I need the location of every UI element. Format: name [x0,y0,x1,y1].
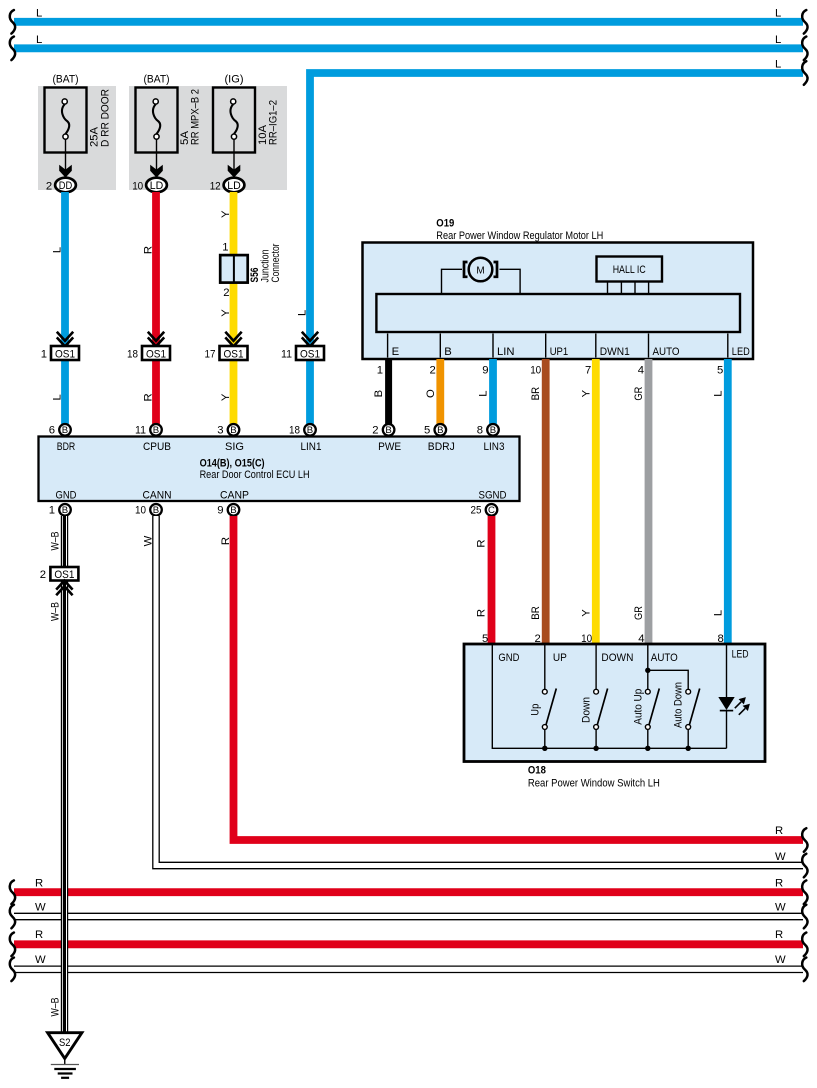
svg-text:4: 4 [638,633,644,645]
svg-text:W: W [143,535,155,546]
svg-text:O18: O18 [528,765,546,777]
wire L bus 1 (top) [10,8,808,34]
svg-text:CPUB: CPUB [143,441,171,453]
svg-text:E: E [392,346,400,358]
ECU pin 11 CPUB terminal [135,424,162,437]
svg-text:L: L [712,390,724,396]
svg-text:10: 10 [132,181,143,193]
O19 pin 1 E [377,334,400,377]
svg-text:B: B [230,505,236,516]
svg-text:18: 18 [289,425,300,437]
svg-text:O14(B), O15(C): O14(B), O15(C) [200,458,265,470]
svg-text:GR: GR [633,387,645,401]
svg-text:AUTO: AUTO [651,652,678,664]
svg-text:7: 7 [585,365,591,377]
svg-text:11: 11 [135,425,146,437]
svg-text:BR: BR [530,606,542,620]
wire L (LIN3) [478,359,494,424]
svg-text:L: L [775,8,781,20]
svg-text:DOWN: DOWN [601,652,633,664]
svg-text:O19: O19 [436,218,454,230]
svg-text:1: 1 [41,349,47,361]
AUTO branch node [645,645,688,689]
svg-text:R: R [143,393,155,401]
svg-text:CANP: CANP [220,490,249,502]
wire R (SGND to switch GND) [476,516,492,644]
wire R bus 2 [10,929,808,956]
svg-text:DWN1: DWN1 [600,346,630,358]
power source block background 2 [129,86,287,190]
svg-text:UP: UP [553,652,567,664]
switch Auto Down (no vertical from node) [673,682,700,751]
fuse 10A RR-IG1-2 [210,74,280,193]
svg-text:R: R [35,929,43,941]
ECU pin 10 CANN terminal [135,504,162,517]
O19 pin 9 LIN [482,334,514,377]
svg-text:8: 8 [718,633,724,645]
ECU pin 1 GND terminal [49,504,71,517]
svg-text:LIN: LIN [497,346,515,358]
wire L bus 3 to LIN1 [297,59,808,425]
svg-text:8: 8 [477,425,483,437]
ECU pin 18 LIN1 terminal [289,424,316,437]
ECU pin 25 SGND terminal [471,504,498,517]
svg-text:HALL IC: HALL IC [613,264,646,276]
svg-text:R: R [35,878,43,890]
wire O (BDRJ) [425,359,441,424]
connector 11 OS1 [281,332,324,361]
svg-text:R: R [220,537,232,545]
svg-text:Y: Y [580,609,592,617]
motor M [442,258,521,294]
svg-text:M: M [476,265,484,276]
svg-text:W: W [35,954,46,966]
connector 2 OS1 [40,567,79,595]
svg-text:W: W [775,851,786,863]
svg-text:BDR: BDR [57,441,76,453]
svg-text:CANN: CANN [143,490,172,502]
svg-text:OS1: OS1 [146,348,166,360]
svg-text:B: B [490,425,496,436]
svg-text:B: B [307,425,313,436]
svg-text:R: R [476,609,488,617]
svg-text:OS1: OS1 [55,348,75,360]
wire R (CANP bus) [220,516,808,852]
wire BR (UP1 to switch) [530,359,546,644]
svg-text:Down: Down [581,697,593,723]
switch Up [529,645,556,751]
svg-text:B: B [437,425,443,436]
svg-text:Connector: Connector [270,243,282,282]
wire W (CANN bus) [143,516,808,877]
ECU pin 8 LIN3 terminal [477,424,499,437]
svg-text:L: L [36,8,42,20]
ECU pin 6 BDR terminal [49,424,71,437]
svg-text:5: 5 [482,633,488,645]
svg-text:Rear Power Window Regulator Mo: Rear Power Window Regulator Motor LH [436,230,603,242]
svg-text:OS1: OS1 [300,348,320,360]
connector 18 OS1 [127,332,170,361]
svg-text:9: 9 [482,365,488,377]
O19 pin 7 DWN1 [585,334,630,377]
svg-text:10: 10 [135,505,146,517]
svg-text:O: O [425,389,437,398]
svg-text:D RR DOOR: D RR DOOR [100,89,112,147]
svg-text:(BAT): (BAT) [144,74,170,86]
svg-text:B: B [153,425,159,436]
wire B (PWE) [373,359,389,424]
svg-text:SIG: SIG [225,441,244,453]
svg-text:1: 1 [377,365,383,377]
fuse 5A RR MPX-B 2 [132,74,201,193]
svg-text:LD: LD [227,180,241,192]
svg-text:LIN3: LIN3 [484,441,505,453]
svg-text:R: R [476,539,488,547]
svg-text:L: L [297,310,309,316]
wire W-B (GND to S2 ground) [49,516,68,1033]
svg-text:2: 2 [223,287,229,299]
svg-text:B: B [62,425,68,436]
svg-text:LED: LED [732,649,749,661]
svg-text:Auto Up: Auto Up [632,689,644,725]
svg-text:W–B: W–B [49,602,61,621]
svg-text:GND: GND [56,490,77,502]
O19 pin 2 B [430,334,452,377]
svg-text:W–B: W–B [49,998,61,1017]
svg-text:3: 3 [217,425,223,437]
svg-text:L: L [775,34,781,46]
switch pin numbers [482,633,724,645]
svg-text:Rear Power Window Switch LH: Rear Power Window Switch LH [528,778,660,790]
svg-text:W: W [775,954,786,966]
svg-text:2: 2 [430,365,436,377]
svg-text:25: 25 [471,505,482,517]
svg-text:L: L [478,390,490,396]
O19 pin 5 LED [717,334,750,377]
svg-text:Y: Y [220,309,232,317]
svg-text:1: 1 [222,242,228,254]
svg-text:Up: Up [529,704,541,716]
svg-text:(IG): (IG) [225,74,244,86]
svg-text:Rear Door Control ECU LH: Rear Door Control ECU LH [200,469,310,481]
svg-text:Y: Y [220,210,232,218]
ECU pin 9 CANP terminal [217,504,239,517]
svg-text:4: 4 [638,365,644,377]
svg-text:2: 2 [535,633,541,645]
svg-text:B: B [444,346,452,358]
svg-text:W: W [775,902,786,914]
svg-text:RR–IG1–2: RR–IG1–2 [268,100,280,145]
svg-text:BDRJ: BDRJ [428,441,455,453]
wire GR (AUTO to switch) [633,359,649,644]
O19 pin 4 AUTO [638,334,680,377]
junction connector S56 [220,242,282,300]
wire L bus 2 [10,34,808,60]
O18 Rear Power Window Switch LH box [464,644,765,790]
svg-text:L: L [36,34,42,46]
svg-text:W: W [35,902,46,914]
HALL IC [597,257,663,295]
svg-text:OS1: OS1 [224,348,244,360]
svg-text:10: 10 [530,365,541,377]
svg-text:5: 5 [424,425,430,437]
svg-text:B: B [373,390,385,398]
svg-text:R: R [775,929,783,941]
svg-text:C: C [488,505,495,516]
ground S2 [48,1033,82,1078]
svg-text:(BAT): (BAT) [53,74,79,86]
svg-text:RR MPX–B 2: RR MPX–B 2 [190,89,202,145]
svg-text:Y: Y [220,393,232,401]
wire Y (DWN1 to switch) [580,359,596,644]
ECU pin 3 SIG terminal [217,424,239,437]
wire W bus 1 [10,902,808,929]
svg-text:Auto Down: Auto Down [673,682,685,728]
switch Auto Up [632,670,659,751]
O19 internal bus bar [376,294,740,332]
ECU pin 2 PWE terminal [372,424,394,437]
svg-text:B: B [62,505,68,516]
ECU pin 5 BDRJ terminal [424,424,446,437]
svg-text:S2: S2 [59,1037,71,1049]
svg-text:PWE: PWE [378,441,401,453]
svg-text:AUTO: AUTO [653,346,680,358]
svg-text:DD: DD [59,180,73,192]
svg-text:2: 2 [40,569,46,581]
svg-text:2: 2 [46,181,52,193]
svg-text:LIN1: LIN1 [301,441,322,453]
wire L (LED to switch) [712,359,728,644]
O19 pin 10 UP1 [530,334,568,377]
svg-text:L: L [52,394,64,400]
svg-text:R: R [775,878,783,890]
svg-text:2: 2 [372,425,378,437]
O18 pin labels [498,649,748,664]
svg-text:BR: BR [530,387,542,401]
svg-text:GR: GR [633,606,645,620]
svg-text:1: 1 [49,505,55,517]
O14(B), O15(C) Rear Door Control ECU LH box [39,437,520,502]
fuse 25A D RR DOOR [45,74,112,193]
LED indicator [718,645,750,748]
svg-text:UP1: UP1 [550,346,569,358]
svg-text:W–B: W–B [49,532,61,551]
svg-text:5: 5 [717,365,723,377]
switch Down [581,645,608,751]
svg-text:R: R [143,246,155,254]
svg-text:GND: GND [498,652,519,664]
svg-text:SGND: SGND [479,490,507,502]
svg-text:6: 6 [49,425,55,437]
svg-text:17: 17 [205,349,216,361]
power source block background 1 [38,86,116,190]
svg-text:LED: LED [732,346,750,358]
svg-text:B: B [153,505,159,516]
svg-text:12: 12 [210,181,221,193]
svg-text:L: L [712,610,724,616]
wire Y (SIG feed) [220,192,234,424]
svg-text:11: 11 [281,349,292,361]
svg-text:9: 9 [217,505,223,517]
svg-text:10: 10 [581,633,592,645]
O18 GND internal wire [492,645,726,748]
svg-text:B: B [230,425,236,436]
connector 17 OS1 [205,332,248,361]
wire L (BDR feed) [52,192,66,424]
svg-text:LD: LD [150,180,164,192]
svg-text:R: R [775,825,783,837]
svg-text:18: 18 [127,349,138,361]
wire R bus 1 [10,878,808,905]
svg-text:L: L [775,59,781,71]
svg-text:Y: Y [580,389,592,397]
O19 Rear Power Window Regulator Motor LH box [363,218,754,360]
wire R (CPUB feed) [143,192,157,424]
svg-text:B: B [385,425,391,436]
svg-text:L: L [52,247,64,253]
connector 1 OS1 [41,332,79,361]
wire W bus 2 [10,954,808,981]
